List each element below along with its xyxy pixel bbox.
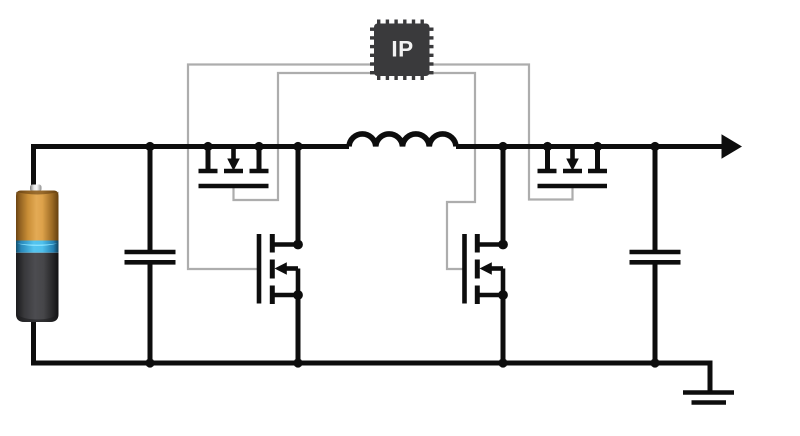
wire: Q3 drain wire from top rail — [501, 147, 506, 245]
battery BT1 — [16, 185, 59, 323]
wire: Q2 drain wire from top rail — [296, 147, 301, 245]
node: junction dot Q1 drain — [254, 142, 263, 151]
inductor L1 — [349, 134, 456, 147]
capacitor C1 vertical leads — [148, 147, 153, 251]
node: junction dot Q2 drain — [293, 240, 303, 250]
node: junction dot Q4 drain — [593, 142, 602, 151]
wire: top rail right segment (inductor to output arrow) — [456, 144, 723, 149]
node: junction dot Q3 source — [498, 290, 508, 300]
wire: top rail left segment (battery to inductor) — [34, 147, 350, 189]
node: junction dot Q3 drain — [498, 240, 508, 250]
node: junction dot Q2 source — [293, 290, 303, 300]
node: junction dot C1 bottom — [145, 358, 154, 367]
wire: gray gate wire C (IP to Q4 gate, right inner) — [430, 65, 573, 200]
transistor Q4 (top-right MOSFET) — [538, 147, 608, 187]
wire: gray gate wire D (IP to Q3 gate, right outer) — [430, 73, 475, 269]
node: junction dot C2 top — [650, 142, 659, 151]
svg-text:IP: IP — [391, 37, 413, 62]
node: junction dot Q3 source bottom — [498, 358, 507, 367]
wire: Q2 source wire to bottom rail — [296, 295, 301, 363]
wire: bottom rail (battery to ground) — [34, 320, 711, 391]
ground — [683, 393, 734, 403]
wire: Q3 source wire to bottom rail — [501, 295, 506, 363]
output arrowhead — [722, 134, 743, 158]
node: junction dot C2 bottom — [650, 358, 659, 367]
capacitor C1 plates — [125, 250, 176, 255]
node: junction dot Q4 source — [543, 142, 552, 151]
wire: gray gate wire A (IP to Q2 gate, left outer) — [188, 65, 374, 270]
node: junction dot switch node B — [498, 142, 507, 151]
capacitor C2 plates — [630, 250, 681, 255]
op-amp U1: IP controller chip — [370, 20, 434, 81]
transistor Q1 (top-left MOSFET) — [199, 147, 269, 187]
node: junction dot switch node A — [293, 142, 302, 151]
node: junction dot C1 top — [145, 142, 154, 151]
node: junction dot Q2 source bottom — [293, 358, 302, 367]
capacitor C2 vertical leads — [653, 147, 658, 251]
node: junction dot Q1 source — [203, 142, 212, 151]
wire: gray gate wire B (IP to Q1 gate, left inner) — [234, 73, 375, 200]
transistor Q2 (bottom-left MOSFET) — [259, 234, 298, 304]
transistor Q3 (bottom-right MOSFET) — [465, 234, 504, 304]
